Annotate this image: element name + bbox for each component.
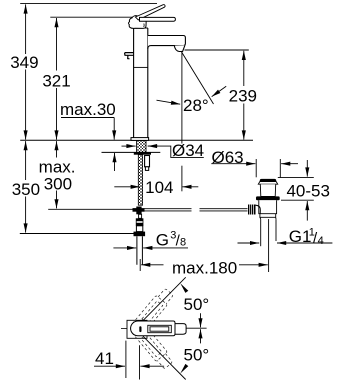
water stream vertical reference lower segment bbox=[181, 166, 183, 192]
escutcheon base plate bbox=[131, 138, 149, 141]
top view: lever body outline bbox=[131, 321, 175, 336]
svg-text:40-53: 40-53 bbox=[286, 182, 329, 201]
G 3/8 underline with left-pointing arrow at hose bbox=[143, 247, 188, 249]
pop-up rod tee fitting bbox=[133, 207, 145, 219]
svg-text:8: 8 bbox=[180, 237, 186, 249]
top view: ghost lever rotated +50deg (up) bbox=[128, 287, 175, 339]
dimension 321 line upper segment with up arrow bbox=[56, 18, 58, 71]
40-53 bottom extension line bbox=[281, 199, 314, 201]
column joint line bbox=[134, 66, 148, 68]
top view: lever slot inner bbox=[150, 327, 169, 331]
supply stop extension line (max.300 bottom level) bbox=[48, 208, 132, 210]
dimension 350 upper segment with up arrow bbox=[25, 141, 27, 180]
dimension max.180 right arrow outward bbox=[239, 264, 268, 266]
svg-text:Ø34: Ø34 bbox=[172, 141, 204, 160]
top view: horizontal centerline bbox=[187, 327, 207, 329]
upper angle line arrowhead bbox=[180, 283, 188, 293]
lever knuckle bbox=[129, 16, 147, 29]
connection hoses bbox=[137, 236, 143, 265]
41 underline with right-pointing arrow bbox=[94, 365, 125, 367]
lower connector body bbox=[136, 226, 142, 232]
239 top extension line at aerator level bbox=[185, 49, 249, 51]
top view: lever slot outer bbox=[148, 325, 172, 332]
extension line top of raised lever (349 level) bbox=[20, 3, 157, 5]
threaded stud (hatched strip) bbox=[138, 155, 142, 206]
top view: spout end cap bbox=[175, 324, 186, 335]
max.30 lower stem with up arrow to counter bottom bbox=[114, 153, 116, 171]
dimension max.180 left arrow outward bbox=[141, 264, 163, 266]
drain pop-up waste: plug cap bbox=[260, 179, 277, 182]
drain flange bbox=[258, 182, 277, 185]
rod adjusting nut bbox=[136, 218, 144, 226]
svg-text:max.30: max.30 bbox=[60, 100, 116, 119]
label G 3/8 bbox=[156, 229, 186, 249]
svg-text:50°: 50° bbox=[184, 345, 210, 364]
drain centerline extension bbox=[268, 219, 270, 272]
dimension 40-53 upper leg with down arrow bbox=[306, 160, 308, 177]
41 front extension line bbox=[125, 341, 127, 378]
svg-text:349: 349 bbox=[10, 53, 38, 72]
dimension max.300 upper segment with up arrow bbox=[56, 141, 58, 157]
svg-text:104: 104 bbox=[145, 178, 173, 197]
clevis knob on pivot rod bbox=[248, 205, 256, 215]
40-53 top extension line bbox=[278, 176, 314, 178]
lower angle line arrowhead bbox=[180, 364, 188, 374]
dimension 321 line lower segment with down arrow bbox=[56, 88, 58, 140]
dimension 349 line lower segment with down arrow bbox=[25, 70, 27, 140]
max.30 underline bbox=[61, 117, 114, 119]
threaded shank through counter (hatched) bbox=[137, 141, 146, 153]
hose nipple right of stud bbox=[145, 156, 150, 167]
svg-text:239: 239 bbox=[229, 87, 257, 106]
max.30 upper stem with down arrow to counter top bbox=[113, 118, 115, 140]
pop-up actuating rod right segment bbox=[200, 209, 248, 211]
G 3/8 union nut bbox=[134, 232, 146, 237]
svg-text:max.180: max.180 bbox=[172, 258, 237, 277]
top view: square base plate bbox=[127, 320, 147, 338]
diameter 63 underline with right-pointing arrow bbox=[211, 163, 255, 165]
link horn between knob and drain body bbox=[256, 205, 261, 213]
pop-up actuating rod left segment bbox=[145, 209, 192, 211]
dimension 104 left arrow bbox=[114, 186, 140, 188]
aerator outlet bbox=[174, 45, 185, 51]
drain tailpipe right edge bbox=[275, 219, 277, 241]
G 3/8 left arrow bbox=[113, 247, 136, 249]
extension line top of closed lever (321 level) bbox=[50, 16, 135, 18]
dimension 104 right arrow bbox=[182, 186, 198, 188]
top view: ghost lever rotated -50deg (down) bbox=[128, 318, 175, 370]
50deg angle dimension vertical arrows bbox=[200, 313, 202, 327]
closed lever bar bbox=[140, 17, 176, 21]
svg-text:321: 321 bbox=[42, 72, 70, 91]
28 deg left leader arrow bbox=[157, 100, 181, 104]
top view: centerline stub left of base bbox=[121, 327, 127, 329]
dimension 40-53 lower leg with up arrow bbox=[306, 201, 308, 221]
svg-text:41: 41 bbox=[95, 349, 114, 368]
water stream angle line 28 deg bbox=[181, 51, 214, 104]
dimension 239 lower segment with down arrow bbox=[243, 104, 245, 140]
mounting washer under counter bbox=[134, 152, 151, 154]
raised lever (open position) bbox=[135, 5, 165, 20]
dimension 350 lower segment with down arrow bbox=[25, 197, 27, 233]
dimension 239 upper segment with up arrow bbox=[243, 51, 245, 86]
top view: pivot slot mark bbox=[139, 326, 141, 332]
dimension 349 line upper segment with up arrow bbox=[25, 4, 27, 54]
right arrowhead of hole diameter bbox=[148, 145, 158, 147]
svg-text:350: 350 bbox=[12, 180, 40, 199]
svg-text:50°: 50° bbox=[184, 295, 210, 314]
41 axis extension line bbox=[139, 345, 141, 379]
water stream vertical reference upper segment bbox=[181, 52, 183, 144]
pull-rod knob at rear of column bbox=[125, 53, 134, 59]
countertop bottom line bbox=[102, 151, 161, 153]
label G1 1/4 bbox=[289, 226, 324, 247]
countertop top line bbox=[20, 139, 253, 141]
28 deg right leader arrow bbox=[212, 86, 227, 96]
faucet column body bbox=[134, 28, 148, 138]
drain tailpipe left edge bbox=[260, 219, 262, 246]
knuckle inner mark bbox=[143, 24, 146, 28]
41 right arrow pointing left bbox=[140, 365, 164, 367]
spout block bbox=[148, 36, 186, 49]
rod nut white stripe bbox=[137, 221, 143, 223]
lower 50deg angle line bbox=[143, 336, 186, 379]
hose nipple lower part bbox=[145, 167, 148, 171]
svg-text:4: 4 bbox=[318, 235, 324, 247]
dimension max.300 lower segment with down arrow bbox=[56, 191, 58, 209]
drain rubber seal (black band) bbox=[256, 196, 280, 200]
upper 50deg angle line bbox=[143, 277, 186, 320]
G1 1/4 underline with left arrow at tailpipe bbox=[277, 242, 332, 244]
svg-text:28°: 28° bbox=[183, 96, 209, 115]
diameter 63 right extension line bbox=[279, 159, 281, 178]
diameter 63 left extension line bbox=[255, 159, 257, 177]
hole diameter right arrow leader to label bbox=[148, 146, 204, 157]
G1 1/4 left arrow bbox=[238, 242, 260, 244]
drain body bbox=[259, 200, 277, 213]
hose end extension line (350 bottom level) bbox=[20, 233, 134, 235]
max.180 left extension tick bbox=[139, 259, 141, 271]
diameter 63 right arrow bbox=[281, 163, 298, 165]
hole diameter left arrow bbox=[122, 145, 136, 147]
svg-text:G: G bbox=[156, 230, 169, 249]
svg-text:300: 300 bbox=[44, 174, 72, 193]
drain upper neck bbox=[260, 184, 275, 196]
drain body step bbox=[260, 214, 276, 219]
